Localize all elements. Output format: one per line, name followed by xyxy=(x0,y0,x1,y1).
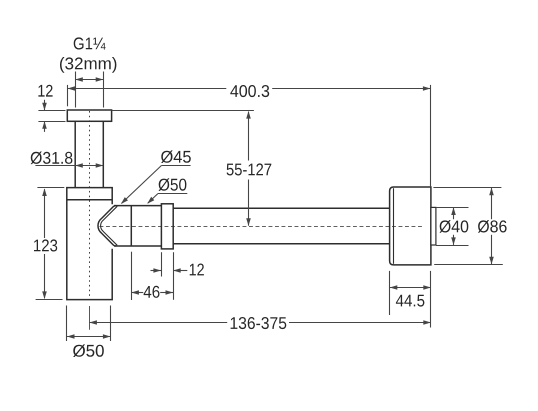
dimension diameter 40 outlet xyxy=(436,207,470,245)
wall flange body (right) xyxy=(390,187,431,265)
elbow joint (curved) xyxy=(98,206,161,246)
wall outlet stub xyxy=(431,207,436,245)
label G1 1/4 xyxy=(74,37,106,49)
horizontal outlet pipe xyxy=(173,208,389,244)
compression nut on pipe xyxy=(161,204,173,249)
dimension diameter 50 body xyxy=(67,306,111,358)
dimension 12 flange thickness xyxy=(38,85,65,132)
inlet pipe flange (top) xyxy=(67,110,111,121)
dimension 123 body height xyxy=(34,188,64,300)
dimension 44.5 wall flange depth xyxy=(390,271,431,328)
bottle body with top flange xyxy=(67,188,112,300)
label (32mm) xyxy=(60,57,116,73)
dimension diameter 86 wall flange xyxy=(433,187,508,264)
vertical centerline (dotted) xyxy=(89,111,91,299)
dimension diameter 31.8 inlet tube xyxy=(31,152,104,168)
label diameter 45 with leader xyxy=(121,150,191,204)
dimension 12 nut width xyxy=(151,252,204,276)
horizontal centerline (dashed) xyxy=(100,226,424,228)
dimension 136-375 adjustable length xyxy=(89,317,431,329)
vertical centerline extension below body xyxy=(89,306,91,330)
dimension 32mm width xyxy=(75,72,103,108)
dimension 400.3 overall length xyxy=(68,85,431,187)
inlet tube (G1 1/4) xyxy=(75,121,103,187)
label diameter 50 with leader xyxy=(147,178,187,203)
dimension 46 elbow-to-nut xyxy=(131,252,173,300)
dimension 55-127 height xyxy=(112,111,272,226)
